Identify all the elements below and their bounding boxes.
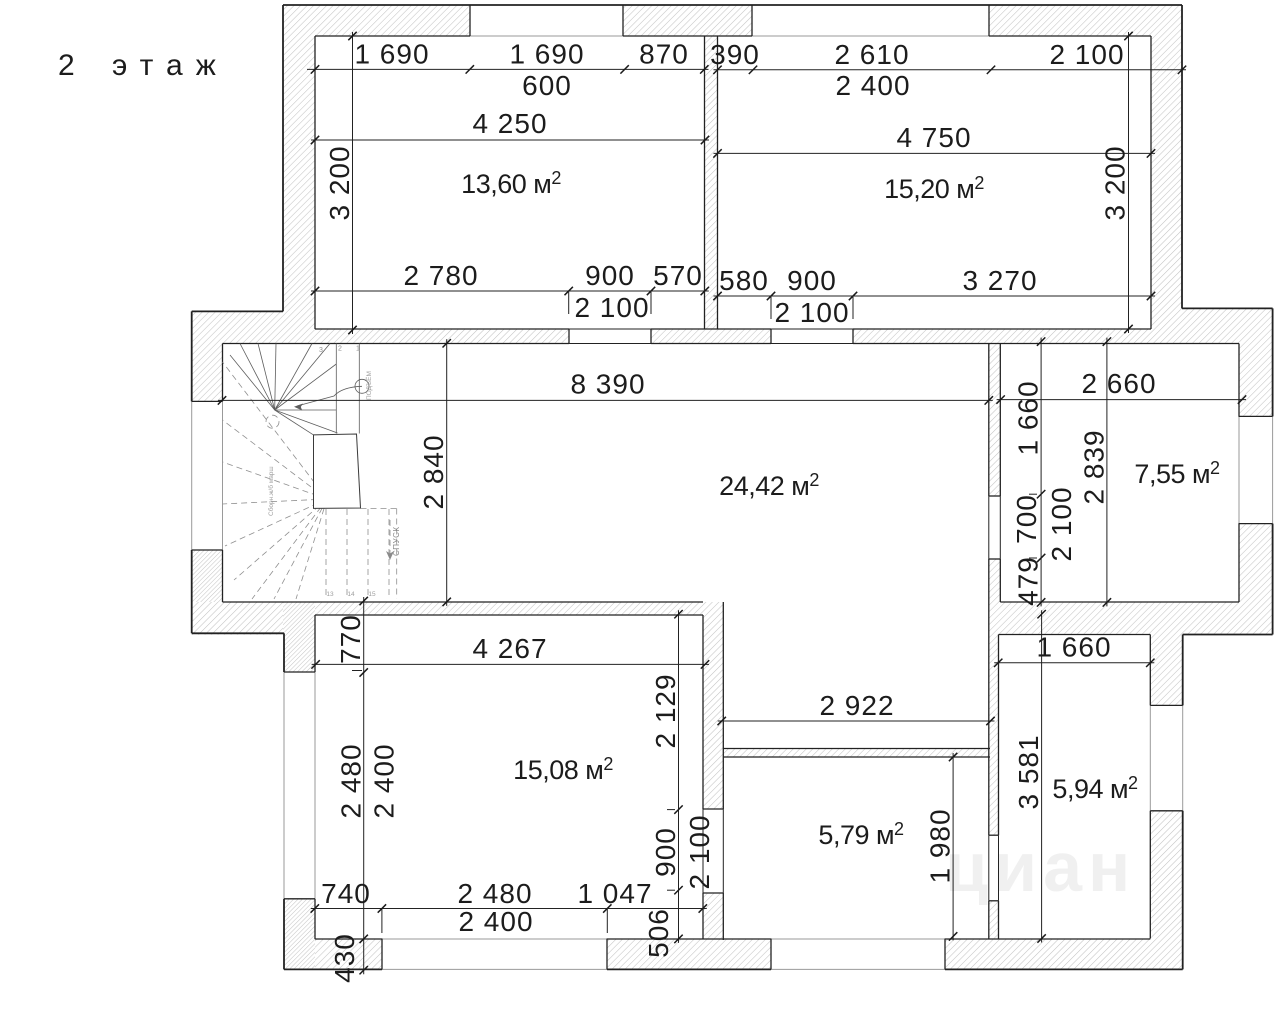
- svg-text:2: 2: [58, 49, 75, 82]
- window inner face stair: [222, 401, 224, 550]
- door jamb 5,79/5,94 bottom: [989, 900, 999, 902]
- dim line 1660/700/479: [1040, 338, 1042, 607]
- bottom inner middle: [607, 938, 771, 940]
- ext stub door room1 left: [568, 291, 570, 314]
- wall top: segment C: [989, 5, 1182, 36]
- door opening face lines room 15,20 door: [771, 328, 853, 330]
- door opening face lines room 15,08 door: [702, 809, 704, 893]
- stair bottom / wall top face: [223, 601, 704, 603]
- room 15,20 left inner face: [717, 36, 719, 329]
- dim line 1980: [952, 753, 954, 940]
- room 5,79 right face lower: [988, 901, 990, 939]
- corridor top face 3: [853, 343, 1239, 345]
- dim line 2922: [718, 720, 995, 722]
- svg-text:2 840: 2 840: [418, 434, 449, 509]
- stair window jamb top: [192, 400, 223, 402]
- dim line 4250: [311, 139, 709, 141]
- wall between rooms 13,60 and 15,20: [705, 36, 718, 329]
- outer bottom edge middle: [607, 968, 771, 970]
- stair window jamb bottom: [192, 549, 223, 551]
- svg-text:2 839: 2 839: [1079, 429, 1110, 504]
- svg-text:900: 900: [650, 827, 681, 877]
- svg-text:5,94 м2: 5,94 м2: [1052, 773, 1138, 804]
- stair left inner face lower: [222, 550, 224, 602]
- dim line 3200 room1: [352, 32, 354, 334]
- dim line 1660 room 5,94: [994, 662, 1154, 664]
- wall top: segment A: [283, 5, 470, 36]
- wall right of 7,55 upper: [1239, 344, 1273, 417]
- corridor right face upper: [988, 344, 990, 497]
- outer right edge bottom: [1182, 811, 1184, 970]
- wall right of room 15,08 upper: [703, 602, 723, 809]
- wall wing top band: [1182, 308, 1273, 343]
- dim line 2660: [997, 399, 1246, 401]
- wall corridor/7,55 upper: [989, 344, 1001, 497]
- svg-text:2 660: 2 660: [1081, 368, 1156, 399]
- window jamb left top: [284, 671, 315, 673]
- door opening face lines corridor/7,55 door: [988, 496, 990, 559]
- bottom window jamb: [770, 939, 772, 970]
- corridor right face lower: [988, 559, 990, 635]
- svg-text:7,55 м2: 7,55 м2: [1134, 458, 1220, 489]
- svg-text:900: 900: [787, 265, 837, 296]
- svg-text:ПОДЪЁМ: ПОДЪЁМ: [365, 371, 373, 400]
- svg-text:1 660: 1 660: [1013, 380, 1044, 455]
- svg-text:740: 740: [321, 878, 371, 909]
- outer wall right edge upper: [1181, 5, 1183, 308]
- svg-text:3 581: 3 581: [1013, 734, 1044, 809]
- stair left inner face upper: [222, 344, 224, 402]
- wall corridor/7,55 lower: [989, 559, 1001, 602]
- outer wing right edge upper: [1272, 308, 1274, 416]
- room 7,55 right inner upper: [1238, 344, 1240, 417]
- window inner face 7,55: [1238, 416, 1240, 523]
- wall left upper: [283, 5, 315, 311]
- wing window jamb bottom: [1239, 523, 1273, 525]
- svg-text:2 100: 2 100: [1046, 486, 1077, 561]
- window inner face 5,94: [1149, 705, 1151, 810]
- svg-text:15,08 м2: 15,08 м2: [513, 754, 613, 785]
- dim line 3200 room2: [1128, 32, 1130, 333]
- svg-text:4 250: 4 250: [472, 108, 547, 139]
- room 7,55 left inner lower: [999, 559, 1001, 602]
- dim line 770/2480-2400/430: [363, 597, 365, 974]
- dim line 2839: [1106, 338, 1108, 607]
- wall bottom: piece 3: [945, 939, 1183, 970]
- svg-text:2 400: 2 400: [458, 906, 533, 937]
- svg-text:2 100: 2 100: [774, 297, 849, 328]
- outer stair left edge upper: [191, 311, 193, 401]
- svg-text:600: 600: [522, 70, 572, 101]
- wall between 5,79 and 5,94 upper: [989, 635, 999, 836]
- room 15,20 right inner face: [1150, 36, 1152, 329]
- wall left face of passage/5,79: [722, 602, 724, 809]
- room 13,60 left inner face: [314, 36, 316, 329]
- room 5,94 right inner upper: [1149, 635, 1151, 706]
- svg-text:14: 14: [347, 591, 355, 598]
- wall top: segment B: [623, 5, 752, 36]
- svg-text:2 400: 2 400: [835, 70, 910, 101]
- door jamb corridor/7,55 bottom: [989, 558, 1001, 560]
- svg-text:циан: циан: [945, 828, 1136, 906]
- svg-text:15: 15: [368, 591, 376, 598]
- room 5,94 left inner lower: [998, 901, 1000, 939]
- svg-text:2 780: 2 780: [403, 260, 478, 291]
- svg-text:580: 580: [719, 265, 769, 296]
- svg-text:2: 2: [338, 346, 342, 353]
- wall band below stair: [192, 602, 283, 635]
- wall band between 7,55 and 5,94: [989, 602, 1273, 635]
- window jamb: [988, 5, 990, 36]
- svg-text:2 610: 2 610: [834, 39, 909, 70]
- svg-text:этаж: этаж: [112, 49, 229, 82]
- svg-text:1: 1: [356, 346, 360, 353]
- window sill room 15,20: [752, 35, 989, 37]
- rooms bottom inner face 2: [651, 328, 771, 330]
- door jamb room 15,20: [852, 329, 854, 344]
- svg-text:15,20 м2: 15,20 м2: [884, 173, 984, 204]
- inner face top wall middle: [623, 35, 752, 37]
- svg-text:1 660: 1 660: [1036, 632, 1111, 663]
- room 15,08 bottom inner 1: [315, 938, 382, 940]
- window inner face bottom right: [771, 938, 945, 940]
- svg-text:4 267: 4 267: [472, 633, 547, 664]
- svg-text:13,60 м2: 13,60 м2: [461, 168, 561, 199]
- corridor top face 2: [651, 343, 771, 345]
- svg-text:2 922: 2 922: [819, 690, 894, 721]
- window crossing right lower: [1182, 705, 1184, 810]
- wall right of 5,94 upper: [1150, 635, 1182, 706]
- room 7,55 left inner upper: [999, 344, 1001, 497]
- svg-text:1 047: 1 047: [577, 878, 652, 909]
- ext stub door room2 left: [770, 296, 772, 319]
- dim line 1690/1690/870: [307, 68, 709, 70]
- wall right of room 15,08 lower: [703, 893, 723, 939]
- staircase: [223, 344, 402, 600]
- room 5,79 right face upper: [988, 635, 990, 836]
- dim line 740/2480/1047: [311, 908, 707, 910]
- rooms bottom inner face 1: [315, 328, 569, 330]
- stub at 809: [667, 809, 675, 811]
- svg-text:5,79 м2: 5,79 м2: [818, 819, 904, 850]
- ext stub door room2 right: [852, 296, 854, 319]
- stub near 770: [352, 670, 362, 672]
- inner face top wall left of window: [315, 35, 470, 37]
- door opening face lines 5,79/5,94 door: [988, 835, 990, 901]
- stub at 890: [667, 889, 675, 891]
- wall band below rooms: piece 3: [853, 329, 1151, 344]
- svg-text:430: 430: [329, 933, 360, 983]
- ext stub bottom door left: [381, 909, 383, 934]
- room 5,79 left face lower: [722, 893, 724, 940]
- svg-text:1 690: 1 690: [354, 38, 429, 69]
- svg-text:2 480: 2 480: [336, 743, 367, 818]
- wall right of 5,94 lower: [1150, 811, 1182, 939]
- room 15,08 left inner face lower: [314, 899, 316, 939]
- dim line 390/2610/2100: [714, 69, 1187, 71]
- room 5,94 right inner lower: [1149, 811, 1151, 939]
- dim line 4750: [714, 152, 1156, 154]
- band above 5,79 top face: [723, 748, 990, 750]
- wall right upper: [1151, 5, 1182, 344]
- svg-text:2 400: 2 400: [369, 743, 400, 818]
- wall pier left of room 15,08: [283, 602, 315, 672]
- window crossing bottom left: [382, 968, 607, 970]
- door jamb room 13,60: [568, 329, 570, 344]
- outer left edge bottom corner: [283, 899, 285, 970]
- outer left edge pier: [283, 633, 285, 672]
- outer step bottom edge: [192, 632, 284, 634]
- door opening face lines room 13,60 door: [569, 328, 651, 330]
- svg-text:2 100: 2 100: [684, 814, 715, 889]
- svg-text:2 100: 2 100: [574, 292, 649, 323]
- outer stair left edge lower: [191, 550, 193, 633]
- room 5,94 top inner face: [999, 634, 1151, 636]
- bottom window jamb: [381, 939, 383, 970]
- dim line 4267: [312, 663, 709, 665]
- wall right of 7,55 lower: [1239, 524, 1273, 602]
- inner face top wall right: [989, 35, 1151, 37]
- outer wall top edge: [283, 4, 1182, 6]
- svg-text:870: 870: [639, 38, 689, 69]
- door jamb room 15,20: [770, 329, 772, 344]
- svg-text:479: 479: [1013, 556, 1044, 606]
- window crossing stair left: [191, 401, 193, 550]
- svg-text:770: 770: [335, 614, 366, 664]
- room 5,94 left inner upper: [998, 635, 1000, 836]
- room 5,79 top inner face: [723, 756, 990, 758]
- svg-text:1 690: 1 690: [509, 38, 584, 69]
- wall band below rooms: piece 1: [315, 329, 569, 344]
- wall band above room 15,08: [315, 602, 703, 615]
- rooms bottom inner face 3: [853, 328, 1151, 330]
- stub at 494: [1029, 493, 1037, 495]
- window jamb left bottom: [284, 898, 315, 900]
- svg-text:4 750: 4 750: [896, 122, 971, 153]
- wall bottom: piece 1: [315, 939, 382, 970]
- svg-text:13: 13: [326, 591, 334, 598]
- room 13,60 right inner face: [704, 36, 706, 329]
- window jamb: [622, 5, 624, 36]
- window jamb 5,94 bottom: [1150, 810, 1182, 812]
- svg-text:Сборн.ж/б марш: Сборн.ж/б марш: [267, 466, 275, 516]
- svg-text:506: 506: [643, 908, 674, 958]
- svg-text:570: 570: [653, 260, 703, 291]
- svg-text:24,42 м2: 24,42 м2: [719, 470, 819, 501]
- window jamb: [751, 5, 753, 36]
- window inner face bottom left: [382, 938, 607, 940]
- dim line 3581: [1041, 610, 1043, 942]
- dim line 2129/900/506: [678, 610, 680, 943]
- door jamb room 15,08 bottom: [703, 892, 723, 894]
- dim line 580/900/3270: [714, 295, 1156, 297]
- window jamb: [469, 5, 471, 36]
- wall bottom-left corner: [284, 899, 315, 970]
- outer step top edge: [192, 310, 283, 312]
- room 15,08 top inner face: [315, 614, 703, 616]
- wing window jamb top: [1239, 415, 1273, 417]
- dim line 2780/900/570: [311, 290, 709, 292]
- svg-text:900: 900: [585, 260, 635, 291]
- wall between 5,79 and 5,94 lower: [989, 901, 999, 939]
- outer right edge below wing: [1182, 635, 1184, 706]
- corridor top face 1: [223, 343, 570, 345]
- room 7,55 bottom inner face: [1000, 601, 1239, 603]
- svg-text:2 129: 2 129: [650, 673, 681, 748]
- window crossing left lower: [283, 672, 285, 899]
- dim line 8390: [218, 399, 993, 401]
- stub at 558: [1029, 557, 1037, 559]
- room 15,08 right inner face lower: [702, 893, 704, 939]
- svg-text:СПУСК: СПУСК: [392, 526, 401, 556]
- room 5,94 bottom inner: [945, 938, 1150, 940]
- svg-text:8 390: 8 390: [570, 368, 645, 399]
- svg-text:3: 3: [319, 347, 323, 354]
- svg-text:3 200: 3 200: [324, 145, 355, 220]
- svg-text:2 100: 2 100: [1049, 39, 1124, 70]
- wall left stair pier lower: [192, 550, 223, 602]
- outer bottom edge left: [284, 968, 382, 970]
- ext stub door room1 right: [650, 291, 652, 314]
- door jamb 5,79/5,94 top: [989, 834, 999, 836]
- door jamb corridor/7,55 top: [989, 495, 1001, 497]
- window jamb 5,94 top: [1150, 704, 1182, 706]
- wall left stair pier upper: [192, 311, 223, 401]
- ext stub bottom door right: [606, 909, 608, 934]
- bottom window jamb: [944, 939, 946, 970]
- outer wing bottom edge: [1183, 634, 1273, 636]
- window sill room 13,60: [470, 35, 623, 37]
- bottom window jamb: [606, 939, 608, 970]
- outer wall left edge: [282, 5, 284, 311]
- svg-text:3 270: 3 270: [962, 265, 1037, 296]
- outer bottom edge right: [945, 968, 1183, 970]
- window crossing bottom right: [771, 968, 945, 970]
- room 15,08 right inner face upper: [702, 615, 704, 809]
- svg-text:2 480: 2 480: [457, 878, 532, 909]
- room 15,08 left inner face upper: [314, 615, 316, 672]
- svg-text:700: 700: [1011, 494, 1042, 544]
- door jamb room 15,08 top: [703, 808, 723, 810]
- svg-text:3 200: 3 200: [1100, 145, 1131, 220]
- outer wing right edge lower: [1272, 524, 1274, 635]
- wall band below rooms: piece 2: [651, 329, 771, 344]
- outer wing top edge: [1182, 307, 1273, 309]
- door jamb room 13,60: [650, 329, 652, 344]
- dim line 2840: [446, 339, 448, 606]
- wall bottom: piece 2: [607, 939, 771, 970]
- wall band above stair: [223, 311, 316, 343]
- wall band above room 5,79: [723, 749, 990, 758]
- svg-text:390: 390: [710, 39, 760, 70]
- room 7,55 right inner lower: [1238, 524, 1240, 602]
- window crossing right wing: [1272, 416, 1274, 523]
- window inner face room 15,08: [314, 672, 316, 899]
